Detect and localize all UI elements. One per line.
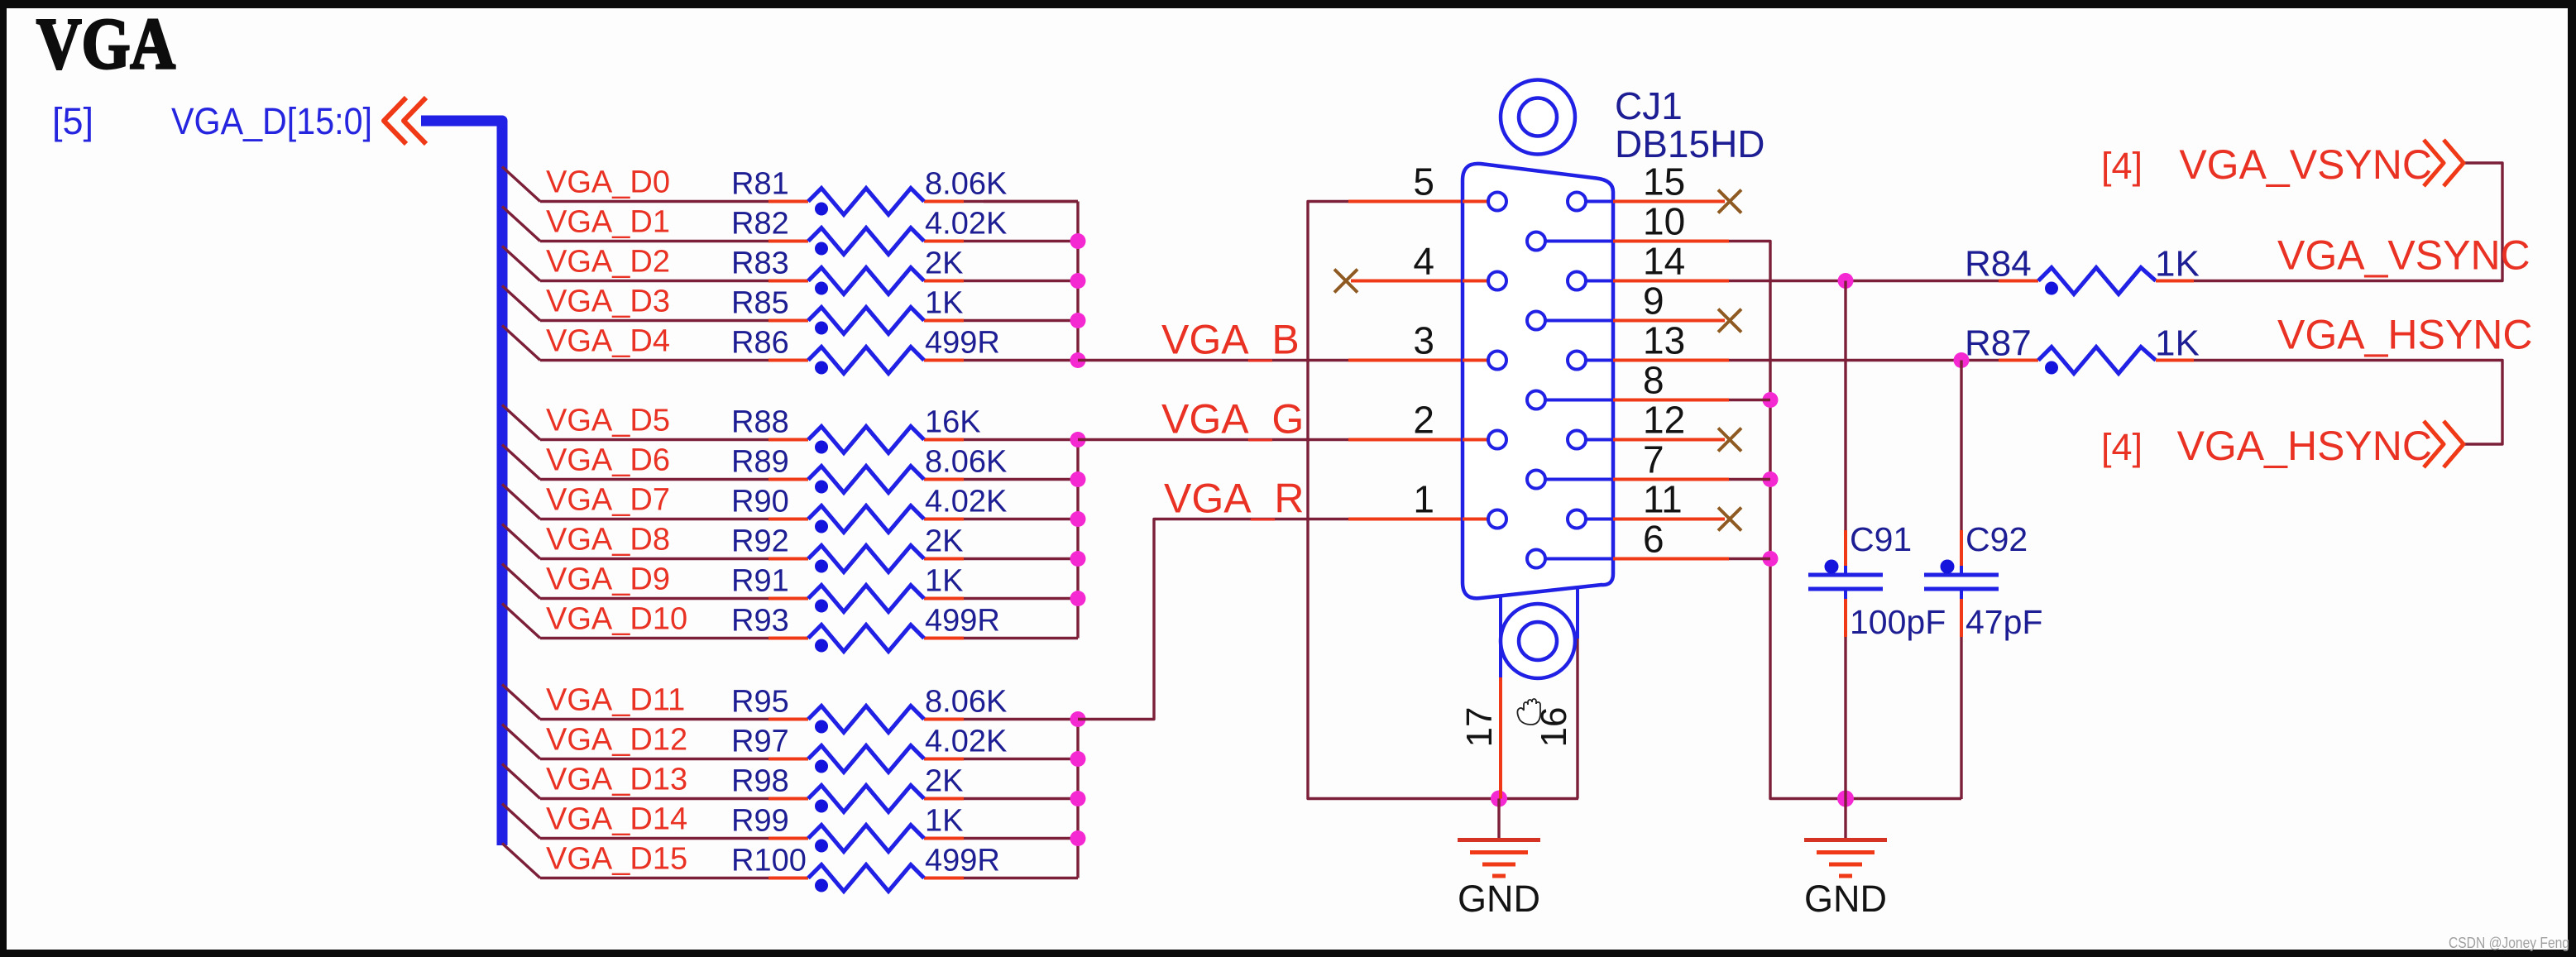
svg-text:VGA_G: VGA_G: [1161, 396, 1304, 443]
svg-text:[4]: [4]: [2101, 426, 2143, 468]
svg-text:12: 12: [1643, 399, 1685, 442]
svg-text:2: 2: [1413, 399, 1434, 442]
svg-text:R93: R93: [731, 604, 789, 639]
svg-text:1: 1: [1413, 478, 1434, 521]
svg-text:VGA_D0: VGA_D0: [546, 165, 670, 200]
svg-text:R84: R84: [1965, 244, 2032, 285]
svg-text:R82: R82: [731, 207, 789, 242]
svg-text:4: 4: [1413, 240, 1434, 283]
svg-text:499R: 499R: [925, 844, 1000, 878]
svg-text:VGA_D9: VGA_D9: [546, 562, 670, 597]
svg-text:R92: R92: [731, 524, 789, 559]
svg-text:1K: 1K: [925, 804, 963, 839]
svg-text:8.06K: 8.06K: [925, 167, 1007, 202]
svg-text:R86: R86: [731, 326, 789, 361]
svg-text:C91: C91: [1850, 520, 1912, 558]
svg-text:VGA_B: VGA_B: [1161, 317, 1300, 363]
svg-text:47pF: 47pF: [1966, 603, 2042, 641]
svg-text:VGA_VSYNC: VGA_VSYNC: [2179, 141, 2432, 188]
svg-text:R98: R98: [731, 764, 789, 799]
svg-text:R91: R91: [731, 564, 789, 599]
svg-text:499R: 499R: [925, 604, 1000, 639]
svg-text:1K: 1K: [2155, 244, 2200, 285]
svg-text:VGA_D13: VGA_D13: [546, 763, 687, 797]
svg-text:9: 9: [1643, 280, 1664, 323]
svg-text:R99: R99: [731, 804, 789, 839]
svg-text:VGA_D7: VGA_D7: [546, 483, 670, 518]
svg-text:15: 15: [1643, 160, 1685, 203]
svg-text:GND: GND: [1458, 878, 1540, 920]
svg-text:VGA_D2: VGA_D2: [546, 245, 670, 280]
svg-text:VGA_HSYNC: VGA_HSYNC: [2177, 423, 2432, 469]
svg-text:CJ1: CJ1: [1615, 84, 1683, 127]
svg-text:6: 6: [1643, 518, 1664, 561]
svg-text:[5]: [5]: [52, 100, 93, 142]
svg-text:16K: 16K: [925, 405, 981, 440]
svg-text:VGA: VGA: [36, 4, 175, 84]
svg-text:GND: GND: [1804, 878, 1887, 920]
svg-text:R89: R89: [731, 445, 789, 480]
svg-text:3: 3: [1413, 319, 1434, 362]
svg-text:C92: C92: [1966, 520, 2028, 558]
svg-text:VGA_D8: VGA_D8: [546, 523, 670, 557]
svg-text:R95: R95: [731, 685, 789, 720]
svg-text:4.02K: 4.02K: [925, 485, 1007, 519]
svg-text:14: 14: [1643, 240, 1685, 283]
svg-text:VGA_D6: VGA_D6: [546, 443, 670, 478]
svg-text:DB15HD: DB15HD: [1615, 122, 1765, 165]
svg-text:2K: 2K: [925, 764, 963, 799]
svg-text:11: 11: [1643, 478, 1683, 521]
svg-text:10: 10: [1643, 200, 1685, 243]
svg-text:R85: R85: [731, 286, 789, 321]
svg-text:499R: 499R: [925, 326, 1000, 361]
svg-text:R100: R100: [731, 844, 807, 878]
svg-text:VGA_D3: VGA_D3: [546, 285, 670, 319]
svg-text:VGA_D14: VGA_D14: [546, 802, 687, 837]
svg-text:1K: 1K: [2155, 323, 2200, 364]
svg-text:R90: R90: [731, 485, 789, 519]
svg-text:VGA_D5: VGA_D5: [546, 404, 670, 438]
svg-text:2K: 2K: [925, 246, 963, 281]
svg-text:VGA_HSYNC: VGA_HSYNC: [2277, 312, 2532, 358]
svg-text:VGA_D1: VGA_D1: [546, 205, 670, 240]
svg-text:VGA_R: VGA_R: [1164, 476, 1305, 522]
svg-text:R88: R88: [731, 405, 789, 440]
svg-text:13: 13: [1643, 319, 1685, 362]
svg-text:17: 17: [1459, 707, 1500, 748]
svg-text:100pF: 100pF: [1850, 603, 1946, 641]
svg-text:VGA_D12: VGA_D12: [546, 723, 687, 758]
svg-text:VGA_D4: VGA_D4: [546, 324, 670, 359]
svg-text:1K: 1K: [925, 286, 963, 321]
svg-text:4.02K: 4.02K: [925, 725, 1007, 759]
svg-text:[4]: [4]: [2101, 145, 2143, 187]
svg-text:5: 5: [1413, 160, 1434, 203]
svg-text:8.06K: 8.06K: [925, 685, 1007, 720]
svg-text:CSDN @Joney Feng: CSDN @Joney Feng: [2449, 935, 2569, 951]
svg-text:VGA_D11: VGA_D11: [546, 683, 685, 718]
svg-text:2K: 2K: [925, 524, 963, 559]
svg-text:R87: R87: [1965, 323, 2032, 364]
svg-text:8: 8: [1643, 359, 1664, 402]
svg-text:R83: R83: [731, 246, 789, 281]
svg-text:7: 7: [1643, 438, 1664, 481]
svg-text:VGA_D[15:0]: VGA_D[15:0]: [171, 100, 372, 142]
svg-text:8.06K: 8.06K: [925, 445, 1007, 480]
svg-text:VGA_D10: VGA_D10: [546, 602, 687, 637]
svg-text:R97: R97: [731, 725, 789, 759]
svg-text:4.02K: 4.02K: [925, 207, 1007, 242]
svg-text:VGA_D15: VGA_D15: [546, 842, 687, 877]
svg-text:R81: R81: [731, 167, 789, 202]
svg-text:1K: 1K: [925, 564, 963, 599]
svg-text:VGA_VSYNC: VGA_VSYNC: [2277, 232, 2531, 279]
